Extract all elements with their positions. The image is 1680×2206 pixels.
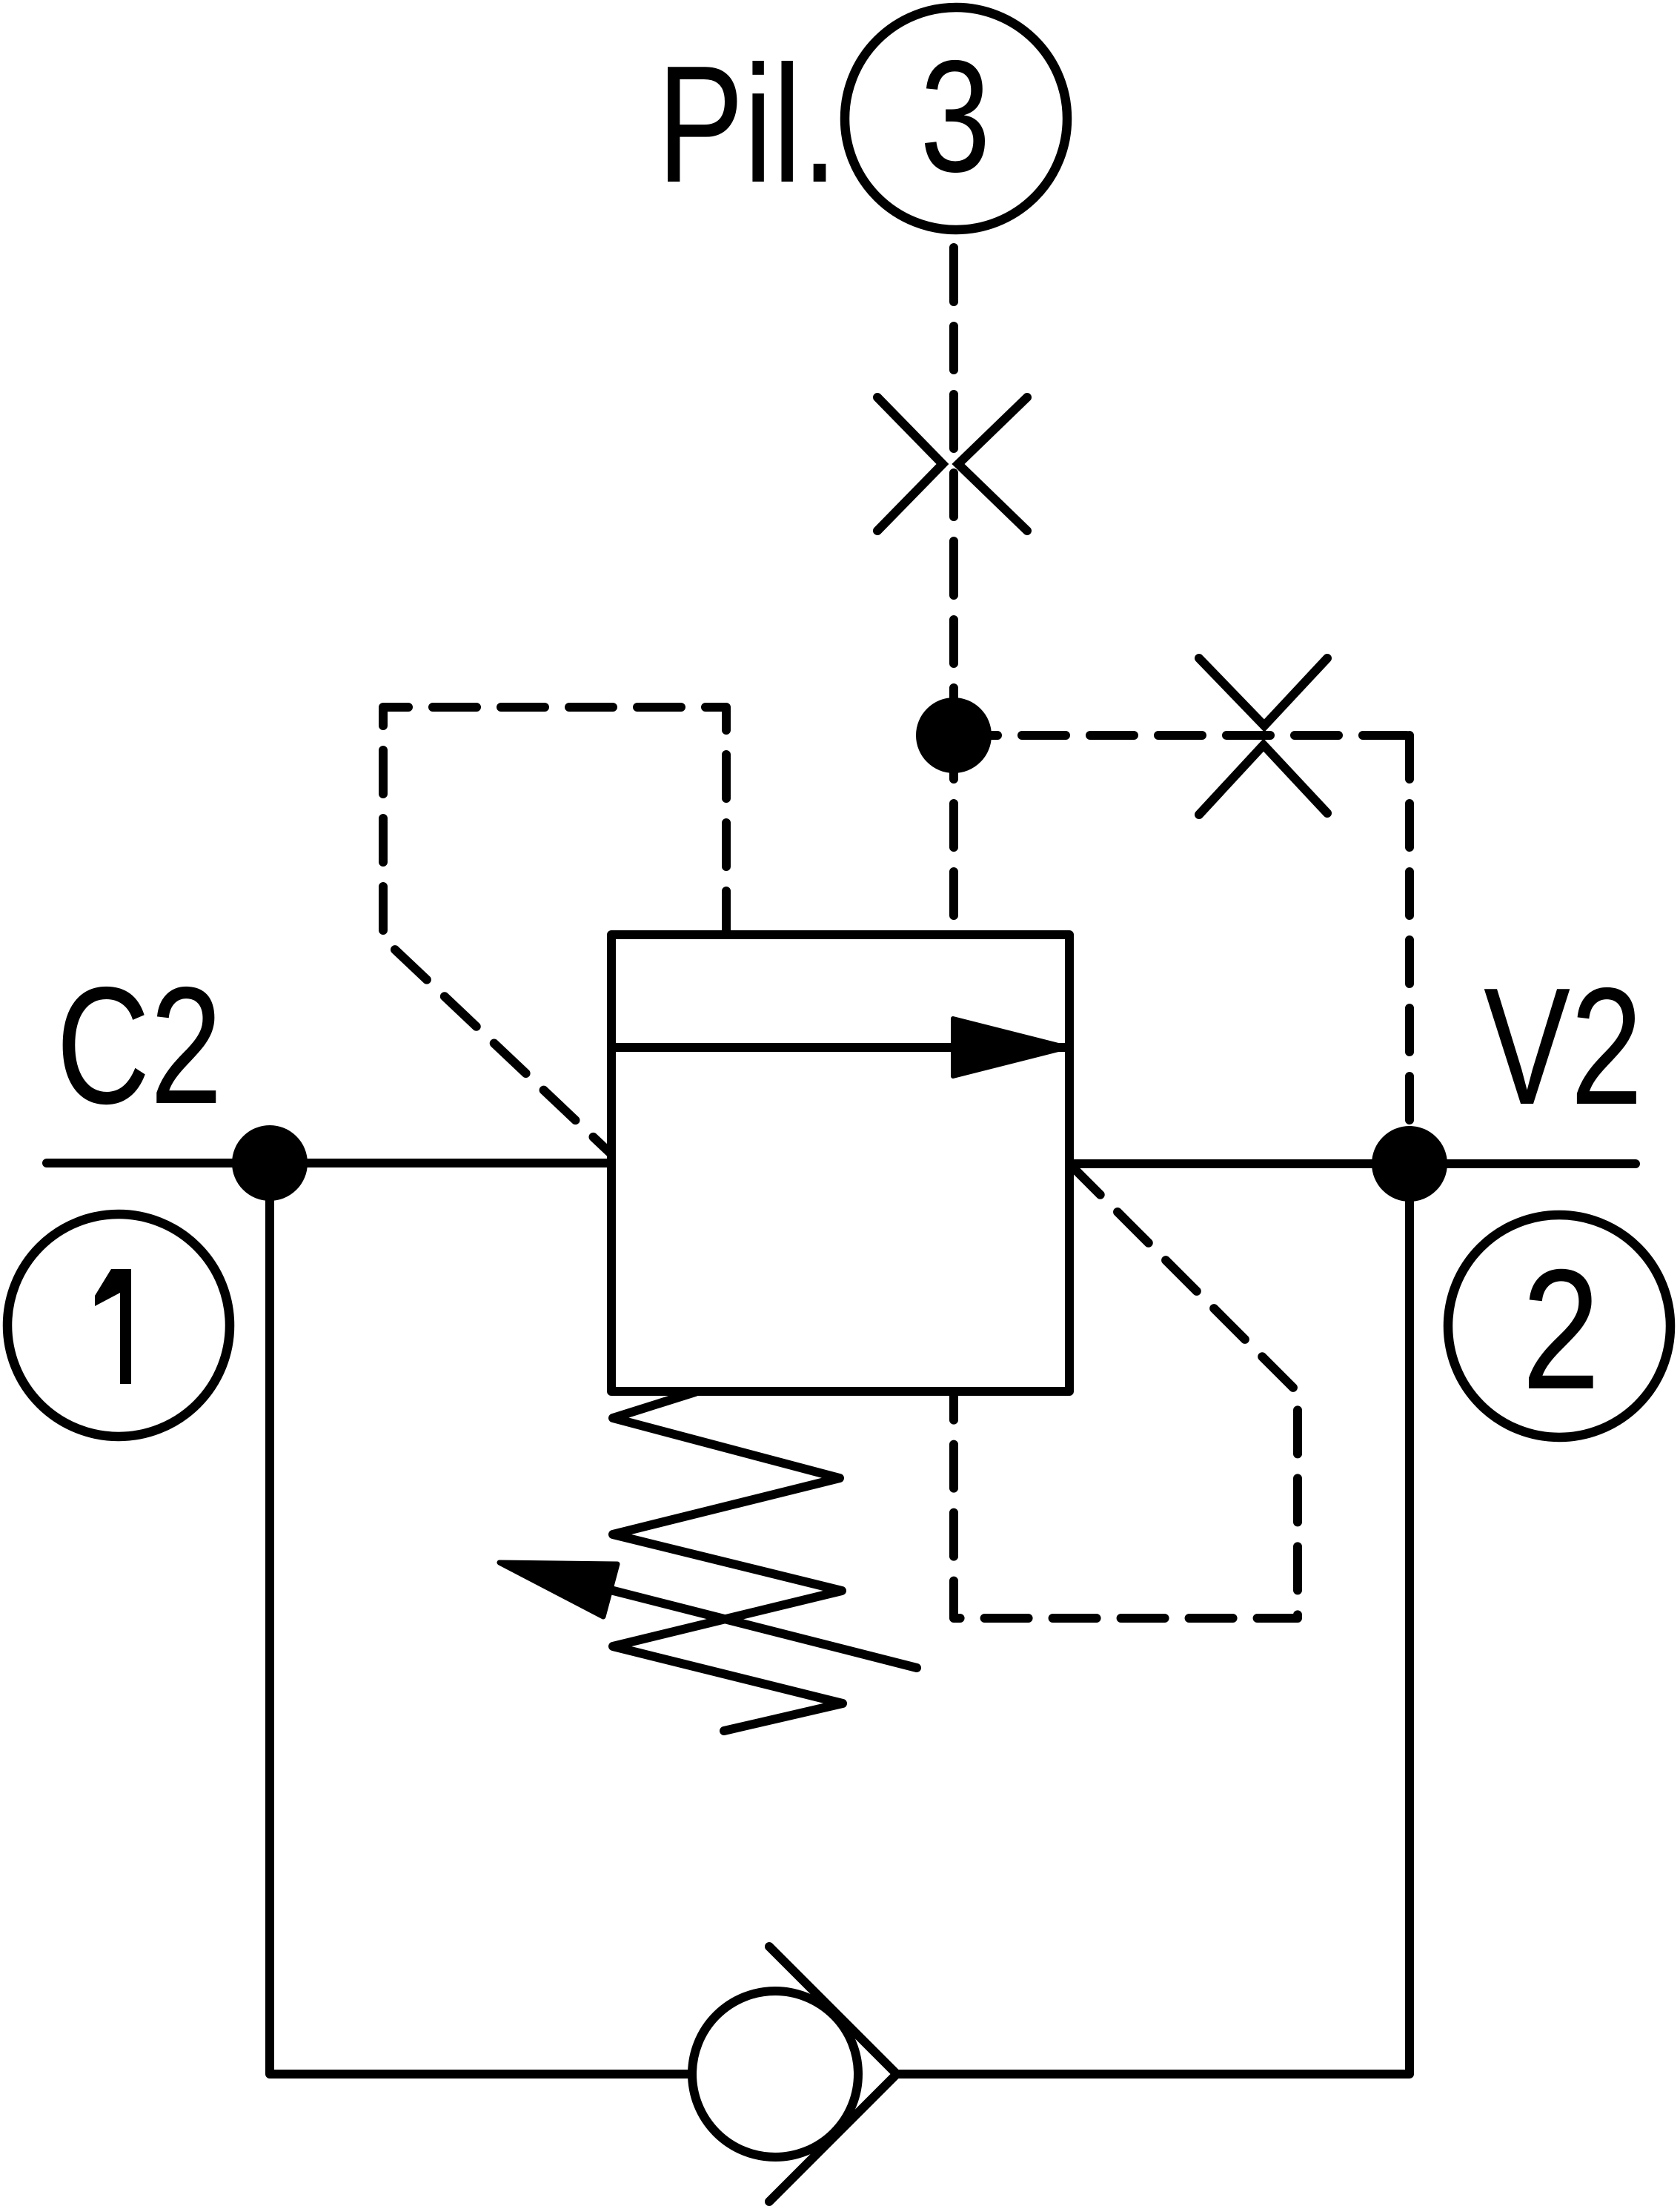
svg-text:3: 3 bbox=[920, 27, 990, 205]
svg-text:2: 2 bbox=[1521, 1233, 1600, 1425]
svg-text:Pil.: Pil. bbox=[657, 30, 838, 217]
svg-text:C2: C2 bbox=[56, 952, 222, 1139]
svg-text:V2: V2 bbox=[1484, 953, 1643, 1139]
